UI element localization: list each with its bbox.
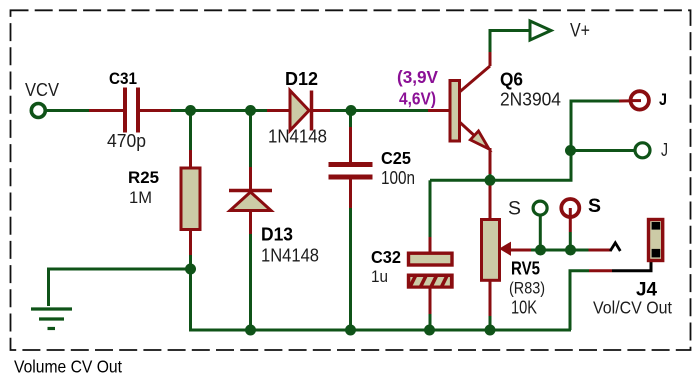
resistor R25 — [128, 111, 200, 270]
wire — [489, 316, 492, 330]
wire — [569, 222, 572, 232]
junction — [346, 105, 357, 116]
voltage annotation (3,9V 4,6V) — [397, 67, 438, 109]
wire wiper — [509, 249, 531, 252]
switch contact caret — [610, 243, 620, 251]
svg-text:J: J — [659, 90, 667, 109]
svg-text:R25: R25 — [128, 169, 159, 187]
junction — [245, 325, 256, 336]
wire (emitter) — [489, 148, 492, 174]
junction — [424, 325, 435, 336]
wire — [89, 109, 123, 112]
junction — [485, 175, 496, 186]
svg-text:1u: 1u — [371, 267, 388, 286]
svg-text:Volume CV Out: Volume CV Out — [14, 357, 122, 377]
terminal VCV — [25, 80, 59, 118]
svg-text:4,6V): 4,6V) — [399, 89, 436, 109]
svg-text:1M: 1M — [129, 188, 152, 207]
wire — [619, 99, 640, 102]
svg-text:VCV: VCV — [25, 80, 59, 100]
svg-text:(3,9V: (3,9V — [397, 67, 438, 87]
svg-text:C25: C25 — [381, 148, 411, 168]
svg-text:10K: 10K — [511, 297, 538, 318]
wire — [313, 109, 330, 112]
svg-text:S: S — [588, 196, 601, 217]
wire — [612, 260, 651, 271]
power V+ — [530, 20, 590, 42]
junction — [185, 105, 196, 116]
wire (collector) — [489, 52, 492, 66]
wire emitter rail — [430, 151, 571, 181]
junction — [565, 145, 576, 156]
wire — [189, 269, 192, 330]
terminal S (green) — [508, 199, 547, 220]
wire — [47, 268, 50, 307]
wire — [589, 269, 612, 272]
wire — [531, 249, 589, 252]
junction — [185, 264, 196, 275]
ground — [31, 309, 72, 329]
connector J4 — [593, 220, 672, 318]
wire — [429, 314, 432, 330]
terminal J (red) — [629, 90, 667, 110]
wire — [428, 109, 450, 112]
junction — [535, 245, 546, 256]
svg-text:1N4148: 1N4148 — [268, 127, 327, 147]
wire — [489, 280, 492, 316]
wire — [140, 109, 171, 112]
capacitor C31 — [107, 69, 146, 151]
wire — [429, 287, 432, 314]
wire — [267, 109, 290, 112]
junction — [245, 105, 256, 116]
svg-text:S: S — [508, 199, 521, 220]
svg-text:D13: D13 — [261, 224, 293, 245]
svg-text:D12: D12 — [285, 68, 318, 89]
wire (bottom rail) — [189, 329, 571, 332]
diode D12 — [268, 68, 327, 147]
wire — [589, 249, 612, 252]
svg-text:C31: C31 — [109, 69, 137, 88]
wire — [330, 109, 428, 112]
potentiometer RV5 — [482, 220, 546, 318]
wire — [571, 101, 619, 151]
svg-text:RV5: RV5 — [511, 259, 540, 279]
svg-text:J: J — [661, 140, 668, 160]
svg-text:(R83): (R83) — [509, 279, 545, 298]
terminal J (green) — [635, 140, 668, 160]
svg-text:Q6: Q6 — [500, 69, 523, 90]
svg-text:C32: C32 — [371, 247, 401, 267]
svg-text:100n: 100n — [381, 168, 415, 188]
junction — [485, 325, 496, 336]
junction — [345, 325, 356, 336]
transistor Q6 — [450, 66, 561, 149]
capacitor C32 — [371, 247, 455, 287]
wire to RV5 — [489, 186, 492, 220]
capacitor C25 — [329, 111, 416, 331]
wire — [47, 109, 89, 112]
wire to J4 sleeve — [570, 271, 589, 330]
wire — [171, 109, 267, 112]
svg-text:V+: V+ — [570, 20, 590, 42]
terminal S (red) — [561, 196, 601, 222]
wire — [489, 174, 492, 180]
svg-text:470p: 470p — [107, 130, 146, 151]
wire — [49, 268, 191, 271]
wire — [429, 237, 432, 253]
wire — [490, 31, 530, 53]
svg-text:1N4148: 1N4148 — [261, 246, 319, 266]
wire — [539, 216, 542, 251]
wire — [571, 149, 634, 152]
junction — [565, 245, 576, 256]
wire — [569, 232, 572, 250]
svg-text:2N3904: 2N3904 — [500, 89, 561, 110]
wire to C32 — [429, 180, 432, 237]
diode D13 — [229, 111, 319, 331]
svg-text:Vol/CV Out: Vol/CV Out — [593, 298, 672, 318]
